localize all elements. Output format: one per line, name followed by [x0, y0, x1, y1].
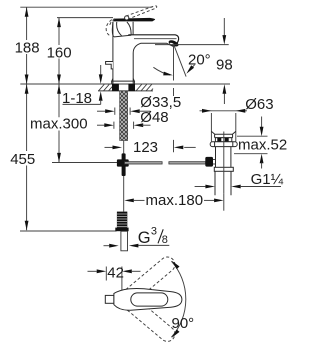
waste axis tick: [223, 193, 225, 210]
threaded shank below deck: [120, 91, 128, 141]
98 top extension line (spout outlet level): [155, 44, 229, 46]
dimension line 188 (vertical x=26.6): [26, 7, 28, 40]
max.52 extension lines: [237, 135, 268, 137]
waste set: dia63 extension lines: [210, 113, 212, 142]
spout axis extension tick: [173, 140, 175, 152]
dashed rotated handle (down position): [120, 292, 178, 344]
svg-text:3: 3: [151, 226, 157, 238]
123 dimension leaders: [105, 146, 113, 148]
nipple nut: [115, 228, 128, 232]
stopper cap: [215, 134, 233, 137]
20 deg stream line: [174, 45, 186, 77]
G3/8 dimension arrows: [104, 245, 110, 247]
aerator: [168, 39, 180, 48]
dimension 1-18 (deck thickness, x=100.7): [100, 65, 102, 75]
98 dimension arrows x=224.3: [223, 18, 225, 36]
svg-text:G: G: [138, 229, 151, 247]
svg-text:188: 188: [15, 40, 40, 57]
G3/8 nipple (threaded): [117, 212, 127, 228]
faucet body left edge: [112, 22, 114, 84]
svg-text:max.300: max.300: [30, 115, 88, 132]
deck top line: [20, 83, 230, 85]
pivot circle: [125, 16, 129, 20]
escutcheon base: [112, 79, 135, 84]
svg-text:455: 455: [10, 151, 35, 168]
svg-text:G1¼: G1¼: [251, 171, 284, 188]
pop-up vertical rod: [123, 141, 125, 212]
hose tube end: [121, 231, 128, 251]
dia 33.5 dimension row y=111.2: [97, 110, 106, 112]
svg-text:1-18: 1-18: [62, 90, 92, 107]
rod clamp: [122, 153, 126, 176]
dashed rotated handle (up position): [120, 254, 178, 306]
faucet body right S-curve into spout underside: [133, 43, 173, 83]
svg-text:Ø48: Ø48: [140, 109, 168, 126]
20 deg vertical axis line: [173, 45, 175, 81]
raised knuckle back (dashed): [106, 20, 112, 36]
horizontal pop-up linkage rod: [125, 162, 163, 164]
deck hatching: [99, 84, 154, 91]
waste lower tube: [214, 171, 216, 195]
spout top edge and tip: [128, 35, 178, 46]
waste body upper tube: [215, 147, 217, 168]
stopper neck with slots: [215, 138, 231, 142]
raised lever (dashed): [126, 6, 157, 19]
svg-text:max.52: max.52: [238, 137, 287, 154]
svg-text:8: 8: [162, 234, 168, 246]
svg-text:90°: 90°: [172, 315, 195, 332]
waste stopper taper: [211, 131, 235, 134]
handle pivot boss: [105, 295, 114, 303]
90 deg arc with arrows: [171, 261, 185, 337]
dia 48 dimension row y=125.2: [97, 124, 105, 126]
waste flange: [210, 142, 237, 147]
dimension line max.300 (vertical x=59 below deck): [58, 84, 60, 117]
lever handle (rest, dark): [113, 18, 155, 22]
max.52 arrows x=261.6: [261, 117, 263, 128]
max.300 extension line: [52, 162, 122, 164]
svg-text:42: 42: [107, 264, 124, 281]
handle knuckle outline: [112, 22, 133, 37]
dimension line 160 (vertical x=59): [58, 18, 60, 45]
svg-text:160: 160: [47, 44, 72, 61]
handle outer outline: [114, 288, 182, 310]
deck bottom line: [98, 90, 153, 92]
dia63 dimension line y=110.8: [200, 110, 248, 112]
spout middle line: [134, 38, 177, 40]
1-18 leader under text: [63, 103, 101, 105]
20 deg leader arrow: [189, 65, 195, 71]
svg-text:123: 123: [133, 139, 158, 156]
pop-up rod knob on body: [106, 62, 113, 69]
svg-text:max.180: max.180: [146, 192, 204, 209]
escutcheon section dark blocks in deck: [112, 84, 119, 91]
rod ball nut at waste: [205, 157, 213, 167]
dimension max.180 y=200.4: [124, 199, 134, 203]
20 deg arc with arrow: [153, 67, 170, 75]
extension line lever rest top (y=17.6): [57, 17, 113, 19]
extension line top (raised lever top, y=7.2): [20, 6, 152, 8]
G1 1/4 dimension arrows: [195, 186, 206, 188]
svg-text:98: 98: [216, 56, 233, 73]
svg-text:20°: 20°: [188, 52, 211, 69]
42 dimension: [88, 270, 97, 272]
svg-text:Ø63: Ø63: [245, 96, 273, 113]
handle inner capsule: [131, 293, 168, 306]
waste locknut band: [214, 167, 233, 171]
bottom reference line: [20, 230, 117, 232]
dimension line 455 (vertical x=26.6 below deck): [26, 84, 28, 151]
waste center line: [223, 132, 225, 194]
